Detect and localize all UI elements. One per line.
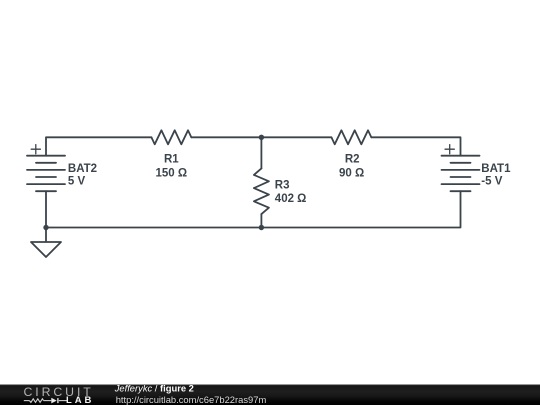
label R3 [275, 180, 290, 192]
wire R3 to bottom node [260, 214, 262, 227]
ground node junction dot [43, 225, 48, 230]
footer bar [0, 385, 540, 405]
svg-text:R1: R1 [164, 154, 179, 166]
CircuitLab logo wire with resistor and diode [24, 398, 68, 404]
svg-text:150 Ω: 150 Ω [155, 167, 187, 179]
value label 5 V [68, 176, 86, 188]
value label 402 ohm [275, 193, 307, 205]
resistor R3 [254, 168, 269, 214]
wire R1 to node A [191, 136, 261, 138]
svg-text:BAT2: BAT2 [68, 163, 97, 175]
value label 90 ohm [339, 167, 364, 179]
label BAT1 [481, 163, 511, 175]
CircuitLab logo wordmark LAB [66, 395, 94, 405]
wire node A to R2 [261, 136, 331, 138]
svg-text:-5 V: -5 V [481, 176, 502, 188]
node A junction dot [259, 135, 264, 140]
svg-text:LAB: LAB [66, 395, 94, 405]
svg-text:R2: R2 [345, 154, 360, 166]
bottom node junction dot [259, 225, 264, 230]
label BAT2 [68, 163, 97, 175]
ground symbol [31, 228, 61, 258]
battery BAT1 plates [442, 156, 480, 192]
wire BAT2 minus terminal down to ground node [45, 191, 47, 227]
wire bottom rail left (ground node to bottom node) [46, 227, 261, 229]
wire bottom rail right (bottom node to BAT1 minus terminal) [261, 191, 460, 227]
resistor R2 [331, 130, 371, 144]
svg-text:Jefferykc / figure 2: Jefferykc / figure 2 [114, 383, 194, 394]
wire top-left from BAT2 plus terminal to R1 [46, 137, 151, 155]
battery BAT1 plus sign [445, 145, 454, 154]
svg-text:BAT1: BAT1 [481, 163, 511, 175]
battery BAT2 plates [27, 156, 65, 192]
CircuitLab logo wordmark CIRCUIT [24, 385, 94, 399]
svg-text:402 Ω: 402 Ω [275, 193, 307, 205]
svg-text:90 Ω: 90 Ω [339, 167, 364, 179]
wire R2 to BAT1 plus terminal [371, 137, 460, 155]
battery BAT2 plus sign [31, 145, 40, 154]
label R2 [345, 154, 360, 166]
footer url line [116, 394, 267, 405]
value label 150 ohm [155, 167, 187, 179]
label R1 [164, 154, 179, 166]
resistor R1 [151, 130, 191, 144]
svg-text:R3: R3 [275, 180, 290, 192]
footer author/title line [114, 383, 194, 394]
value label -5 V [481, 176, 502, 188]
svg-text:5 V: 5 V [68, 176, 86, 188]
wire node A down to R3 [260, 137, 262, 168]
svg-text:http://circuitlab.com/c6e7b22r: http://circuitlab.com/c6e7b22ras97m [116, 394, 267, 405]
